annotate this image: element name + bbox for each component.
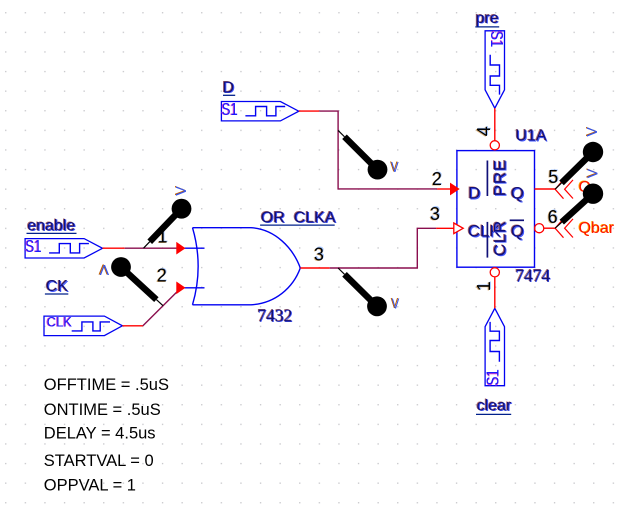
marker V6 label (584, 168, 602, 178)
net label clear (476, 397, 513, 415)
svg-text:clear: clear (477, 397, 512, 414)
svg-text:enable: enable (27, 217, 75, 234)
svg-text:S1: S1 (26, 237, 42, 256)
marker V1 label (173, 186, 191, 196)
net label Q red (578, 179, 591, 196)
attribute text OFFTIME (44, 376, 169, 394)
FF pin D arrow (451, 184, 459, 195)
svg-text:U1A: U1A (515, 128, 546, 145)
svg-text:OFFTIME = .5uS: OFFTIME = .5uS (44, 376, 169, 394)
wire enable to OR input 1 (125, 247, 177, 249)
viewpoint chevrons at Qbar (555, 219, 573, 238)
pin number 1 (157, 226, 169, 247)
marker V4 label (391, 295, 400, 312)
svg-text:3: 3 (314, 244, 324, 264)
svg-text:3: 3 (430, 204, 440, 224)
pin number 5 (547, 166, 559, 187)
svg-text:D: D (468, 184, 480, 203)
FF pin PRE bubble (490, 141, 499, 150)
viewpoint chevrons at Q (555, 180, 573, 199)
marker V6 on Qbar (555, 184, 603, 229)
svg-text:S1: S1 (484, 369, 503, 385)
wire D stub (299, 110, 320, 112)
svg-text:STARTVAL = 0: STARTVAL = 0 (44, 452, 154, 470)
FF pin CLR bubble (490, 268, 499, 277)
svg-text:DELAY = 4.5us: DELAY = 4.5us (44, 425, 156, 443)
svg-text:V: V (585, 168, 601, 178)
FF text D (467, 183, 481, 203)
attribute text DELAY (44, 425, 156, 443)
FF pin CLK line (436, 227, 453, 229)
label OR_CLKA (260, 209, 337, 227)
pin number 3 at FF CLK (429, 203, 441, 224)
pin number 6 (547, 206, 559, 227)
wire CLK diagonal to OR input 2 (143, 288, 181, 326)
FF text PRE rotated (487, 159, 510, 198)
marker V3 on D wire (338, 130, 387, 179)
FF text Q (510, 183, 525, 203)
FF pin D line (437, 188, 451, 190)
reference U1A (515, 127, 548, 145)
FF pin Qbar bubble (535, 224, 544, 233)
wire OR output to FF CLK (330, 228, 437, 268)
net label pre (475, 9, 500, 27)
svg-text:5: 5 (548, 167, 558, 187)
svg-text:4: 4 (474, 126, 494, 136)
OR gate U2A 7432 (185, 228, 301, 305)
svg-text:S1: S1 (222, 100, 238, 119)
net label enable (26, 217, 76, 235)
svg-text:OR CLKA: OR CLKA (261, 209, 336, 226)
net label CK (45, 278, 69, 296)
digital stimulus S1 enable (25, 237, 103, 258)
attribute text OPPVAL (44, 476, 136, 494)
digital stimulus S1 pre (485, 30, 506, 108)
attribute text STARTVAL (44, 452, 154, 470)
FF pin Q line (535, 188, 556, 190)
svg-text:OPPVAL = 1: OPPVAL = 1 (44, 476, 136, 494)
svg-text:CLK: CLK (47, 314, 72, 330)
svg-text:V: V (585, 127, 601, 137)
value 7474 (515, 265, 552, 286)
pin number 4 rotated (473, 126, 495, 137)
marker V1 on enable wire (144, 199, 192, 248)
marker V2 on CLK wire (111, 257, 163, 306)
FF pin CLK open arrow (454, 223, 463, 234)
FF text CLR rotated (487, 219, 510, 257)
marker V2 label (98, 260, 109, 277)
svg-text:2: 2 (157, 266, 167, 286)
svg-text:2: 2 (432, 169, 442, 189)
svg-text:6: 6 (548, 207, 558, 227)
svg-text:V: V (174, 186, 190, 196)
wire clear to FF CLR (494, 277, 496, 308)
value 7432 (257, 305, 293, 326)
svg-text:CLR: CLR (490, 220, 509, 256)
net label D (222, 79, 236, 97)
svg-text:Q: Q (511, 222, 524, 241)
wire pre to FF PRE (494, 108, 496, 141)
pin number 3 at OR output (313, 244, 325, 265)
svg-text:CK: CK (46, 278, 69, 295)
OR input 2 arrow (177, 282, 185, 293)
svg-text:D: D (223, 79, 235, 96)
svg-text:7474: 7474 (515, 265, 550, 285)
digital stimulus S1 D (221, 100, 299, 121)
wire enable stub (103, 247, 125, 249)
svg-text:Q: Q (511, 184, 524, 203)
svg-text:PRE: PRE (490, 159, 509, 196)
OR input 1 arrow (177, 243, 185, 254)
FF text Qbar (510, 220, 525, 241)
svg-text:V: V (99, 261, 109, 277)
svg-text:pre: pre (476, 10, 499, 27)
pin number 1 rotated (473, 281, 495, 292)
net label Qbar red (578, 220, 615, 237)
svg-text:ONTIME = .5uS: ONTIME = .5uS (44, 401, 161, 419)
wire OR output stub (300, 267, 329, 269)
marker V5 label (583, 126, 601, 136)
marker V3 label (390, 158, 399, 175)
svg-text:1: 1 (474, 281, 494, 291)
digital stimulus CLK (44, 314, 122, 336)
attribute text ONTIME (44, 401, 161, 419)
pin number 2 (156, 265, 168, 286)
FF text CLK (467, 221, 503, 241)
wire D to FF pin D (319, 111, 437, 189)
svg-text:7432: 7432 (257, 306, 292, 326)
digital stimulus S1 clear (484, 308, 505, 386)
wire CLK stub (122, 325, 142, 327)
svg-text:V: V (392, 295, 400, 312)
marker V4 on OR output wire (338, 268, 387, 316)
svg-text:V: V (391, 159, 399, 176)
marker V5 on Q (555, 142, 603, 189)
svg-text:S1: S1 (486, 31, 505, 47)
flip-flop U1A box (457, 151, 535, 268)
pin number 2 at FF D (431, 168, 443, 189)
svg-text:Qbar: Qbar (579, 220, 615, 237)
FF pin Qbar line (544, 227, 555, 229)
